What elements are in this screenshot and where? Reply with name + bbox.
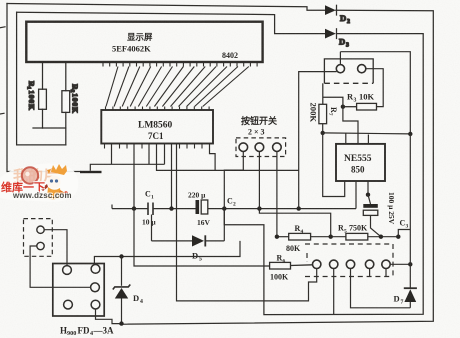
resistor R1: [39, 62, 47, 128]
diode D5: [152, 209, 225, 247]
wire pin to mid rail: [157, 144, 299, 171]
relay contact c1: [63, 266, 72, 275]
wire pin to C1 right node: [171, 144, 173, 209]
relay contact c4: [64, 300, 73, 309]
wire pin to ground row c: [164, 144, 166, 165]
watermark red text: [1, 179, 45, 195]
wire jog to right vertical: [398, 230, 410, 237]
display module 5EF4062K box: [26, 22, 262, 62]
wire b1 to mid rail: [224, 151, 243, 209]
watermark www.dzsc.com: [0, 160, 100, 210]
wire k4 stub: [369, 269, 371, 277]
wire R3 node down to NE555 pin: [343, 107, 358, 144]
wire k2 down to return rail: [333, 269, 335, 315]
tick mark left edge A: [0, 27, 5, 28]
wire bundle display to LM8560 (13 slanted wires): [106, 67, 249, 107]
resistor R3: [343, 103, 377, 110]
label D4: [133, 293, 143, 305]
wire D2 cathode to right frame down to bottom rail: [120, 10, 433, 324]
label R2 100K: [69, 84, 80, 114]
resistor R4: [289, 233, 311, 240]
wire top feed rail to right vertical: [340, 52, 410, 133]
dashed box bottom switch row: [305, 244, 393, 277]
wire R3 node to 200K top: [322, 83, 324, 104]
wire NE555 pin down to mid rail: [355, 181, 357, 209]
diode D7: [404, 288, 417, 302]
capacitor 220u electrolytic: [196, 200, 208, 214]
node R3 left: [341, 105, 345, 109]
contact k2: [330, 260, 338, 268]
diode D3: [325, 29, 337, 39]
wire b2 to mid rail: [258, 151, 260, 209]
resistor R5: [346, 233, 368, 240]
switch SW box top right: [324, 59, 373, 83]
label H900FD4-3A: [60, 326, 114, 338]
wire s2 to R3 right: [366, 69, 384, 107]
wire second left vertical: [17, 12, 66, 145]
node dots mid rail: [132, 206, 136, 210]
resistor 200K R7: [319, 104, 327, 123]
wire k5 stub: [385, 269, 387, 277]
wire NE555 pin to cap node: [367, 181, 369, 195]
wire k5 to D7 vertical: [390, 263, 410, 265]
wire right vertical with D7: [351, 134, 411, 308]
capacitor 100u 25V: [363, 195, 381, 237]
label R4: [295, 224, 304, 235]
label C3: [400, 219, 409, 230]
capacitor C1: [148, 203, 153, 216]
relay contact c5: [91, 300, 100, 309]
wire C1 node down to R6 row: [134, 209, 270, 266]
wire long pin to bottom switch row: [177, 144, 317, 301]
contact k5: [382, 260, 390, 268]
watermark url text: [13, 191, 72, 200]
resistor R6: [270, 262, 313, 269]
IC LM8560: [101, 110, 213, 144]
wire pin to C1 left node: [133, 144, 135, 209]
contact k3: [346, 260, 354, 268]
label C2: [227, 197, 236, 208]
label R6: [277, 254, 286, 265]
label R1 100K: [25, 81, 36, 111]
wire jog rail to R5 node: [259, 209, 330, 237]
wire 200K node down to NE555 pin1: [323, 133, 345, 197]
switch terminal s2: [358, 65, 366, 73]
relay H900FD box: [53, 264, 104, 317]
switch terminal s1: [336, 65, 344, 73]
wire R3 node up to switch: [323, 97, 343, 107]
wire D3 cathode right then down right side and return along y=314.5: [224, 34, 423, 315]
wire 200K bottom node: [322, 124, 324, 133]
wire top outer rail to D2: [7, 4, 325, 11]
button b3: [273, 143, 282, 152]
zener D4: [113, 257, 131, 326]
wire pin to ground row b: [148, 144, 150, 165]
wire R1 bottom junction: [33, 127, 43, 129]
label R3 10K: [347, 92, 375, 104]
wire NE555 top pins: [345, 133, 347, 144]
wire s1 feed from top: [339, 52, 341, 65]
tick mark left edge B: [0, 112, 4, 115]
contact k4: [365, 260, 373, 268]
diode D2: [325, 5, 337, 15]
wire R4 R5 row: [275, 230, 411, 239]
LM8560 top pins: [106, 107, 210, 111]
plug dashed box: [24, 219, 53, 257]
wire left frame vertical: [7, 4, 80, 172]
label R7: [327, 107, 338, 116]
relay contact c3: [91, 283, 100, 292]
wire V1 vertical: [299, 72, 337, 209]
button b1: [239, 143, 248, 152]
wire plug bottom to relay c3: [30, 246, 91, 287]
wire b3 to R4 node: [276, 151, 278, 237]
plug terminal bottom: [37, 242, 44, 249]
wire pin step to mid rail: [210, 144, 216, 171]
wire main mid rail y=208.6: [112, 181, 356, 237]
plug terminal top: [37, 226, 44, 233]
wire pin to ground row: [111, 144, 113, 165]
IC NE555: [336, 144, 385, 181]
wire bottom rail into relay: [96, 309, 121, 324]
wire plug top to relay c1: [44, 230, 67, 266]
wire W1 horizontal: [323, 133, 411, 134]
label D2: [340, 13, 350, 25]
LM8560 bottom pins: [105, 144, 203, 149]
wire relay row y=256.5: [94, 241, 240, 265]
label D3: [339, 37, 349, 49]
label C1: [145, 190, 154, 201]
wire second top rail to D3: [17, 12, 325, 33]
button b2: [255, 143, 264, 152]
label D5: [192, 251, 202, 263]
ground: [80, 171, 102, 173]
label R5 750K: [338, 224, 368, 235]
resistor R2: [62, 62, 70, 145]
display pins bottom ticks: [103, 62, 257, 67]
contact k1: [313, 260, 321, 268]
relay contact c2: [91, 265, 100, 274]
button dashed box: [236, 138, 286, 157]
wire ground row: [90, 164, 164, 171]
label D7: [394, 294, 404, 306]
